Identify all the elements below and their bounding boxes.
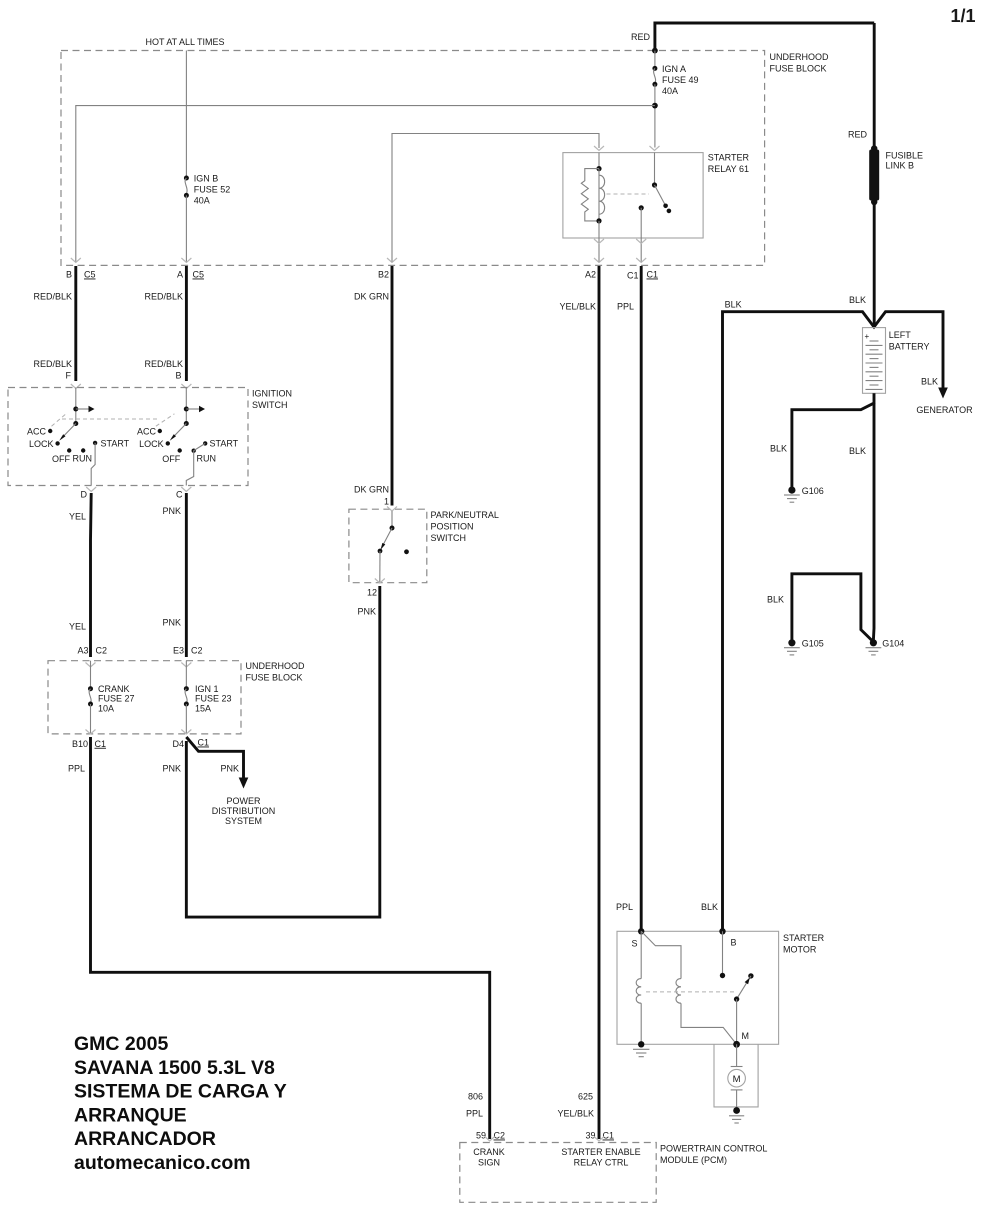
svg-text:ARRANCADOR: ARRANCADOR (74, 1128, 216, 1150)
connector chevron exit B2 (387, 258, 397, 263)
svg-text:BLK: BLK (921, 377, 938, 387)
svg-text:START: START (210, 438, 239, 448)
svg-text:FUSE 52: FUSE 52 (194, 185, 231, 195)
mechanical dashed link ignition (52, 414, 67, 426)
ground G106 (788, 487, 795, 494)
wire START left to D (91, 443, 95, 486)
svg-text:DK GRN: DK GRN (354, 292, 389, 302)
wire S to hold coil (640, 931, 642, 978)
svg-text:D4: D4 (172, 739, 184, 749)
svg-text:806: 806 (468, 1092, 483, 1102)
park/neutral position switch dashed box (349, 509, 427, 583)
svg-text:PNK: PNK (162, 506, 181, 516)
svg-text:B: B (731, 938, 737, 948)
svg-text:G105: G105 (802, 639, 824, 649)
svg-text:STARTER: STARTER (708, 153, 750, 163)
svg-text:SYSTEM: SYSTEM (225, 816, 262, 826)
contact OFF right (178, 448, 182, 452)
svg-text:HOT AT ALL TIMES: HOT AT ALL TIMES (145, 37, 224, 47)
wire to fuse CRANK (90, 661, 92, 689)
svg-text:MOTOR: MOTOR (783, 945, 817, 955)
wire PPL from B10 (91, 737, 490, 1139)
svg-text:ARRANQUE: ARRANQUE (74, 1104, 187, 1126)
motor enclosure (714, 1044, 758, 1107)
wire relay coil feed (598, 153, 600, 169)
switch arm park/neutral (383, 528, 393, 546)
svg-text:M: M (742, 1031, 750, 1041)
svg-text:625: 625 (578, 1092, 593, 1102)
svg-text:B2: B2 (378, 270, 389, 280)
wire to fuse IGN 1 (185, 661, 187, 689)
svg-text:BLK: BLK (849, 446, 866, 456)
node junction at fuse block top (652, 48, 658, 54)
inductor pull-in coil (676, 979, 681, 1004)
svg-text:59: 59 (476, 1131, 486, 1141)
node ignition left top (73, 407, 78, 412)
svg-text:IGN B: IGN B (194, 174, 219, 184)
svg-text:12: 12 (367, 588, 377, 598)
svg-text:F: F (66, 371, 72, 381)
svg-text:IGN 1: IGN 1 (195, 684, 219, 694)
battery LEFT BATTERY (863, 328, 886, 394)
fuse IGN A FUSE 49 40A (652, 66, 657, 71)
svg-text:10A: 10A (98, 704, 114, 714)
svg-text:SWITCH: SWITCH (252, 400, 288, 410)
fusible link B (871, 145, 877, 151)
starter motor box (617, 931, 779, 1044)
svg-text:PNK: PNK (162, 764, 181, 774)
svg-text:IGN A: IGN A (662, 64, 686, 74)
svg-text:G104: G104 (882, 639, 904, 649)
wire ignition feed left (75, 388, 77, 424)
wire RED/BLK column A (185, 266, 188, 381)
inductor hold-in coil (636, 979, 641, 1004)
contact dot relay (667, 209, 672, 214)
svg-text:PPL: PPL (68, 764, 85, 774)
contact START left (93, 441, 97, 445)
svg-text:BLK: BLK (767, 595, 784, 605)
svg-text:LOCK: LOCK (139, 439, 164, 449)
svg-text:UNDERHOOD: UNDERHOOD (770, 52, 830, 62)
svg-text:START: START (101, 438, 130, 448)
svg-text:C2: C2 (494, 1131, 506, 1141)
node ignition left pivot (73, 421, 78, 426)
svg-text:1/1: 1/1 (950, 6, 975, 26)
svg-text:40A: 40A (662, 86, 678, 96)
contact LOCK left (55, 441, 59, 445)
wire PNK from pin 12 (186, 586, 379, 917)
contact RUN right (192, 449, 196, 453)
connector chevron B entry (181, 384, 191, 389)
svg-text:C2: C2 (191, 646, 203, 656)
svg-text:D: D (81, 490, 88, 500)
node ignition right pivot (184, 421, 189, 426)
svg-text:MODULE (PCM): MODULE (PCM) (660, 1155, 727, 1165)
wire BLK G105 jumper (792, 574, 872, 641)
svg-text:M: M (733, 1074, 741, 1085)
svg-text:B10: B10 (72, 739, 88, 749)
svg-text:OFF: OFF (52, 454, 70, 464)
wire PNK column C (185, 493, 188, 657)
svg-text:C1: C1 (95, 739, 107, 749)
svg-text:LINK B: LINK B (886, 161, 915, 171)
wire BLK battery negative to G106 (792, 393, 874, 487)
contact arm top (748, 973, 753, 978)
switch arm starter (737, 976, 751, 999)
wire hold coil to ground (640, 1003, 642, 1044)
svg-text:C1: C1 (603, 1131, 615, 1141)
mechanical dashed link starter (646, 991, 734, 993)
ground starter solenoid (633, 1048, 649, 1050)
svg-text:YEL/BLK: YEL/BLK (559, 302, 596, 312)
wire PNK branch to power distribution (186, 737, 243, 780)
wire IGN B column (185, 51, 187, 179)
svg-text:ACC: ACC (27, 427, 47, 437)
svg-text:FUSIBLE: FUSIBLE (886, 151, 924, 161)
connector chevron exit A (181, 258, 191, 263)
svg-text:RED/BLK: RED/BLK (33, 359, 72, 369)
svg-text:IGNITION: IGNITION (252, 389, 292, 399)
svg-text:1: 1 (384, 497, 389, 507)
svg-text:CRANK: CRANK (473, 1147, 505, 1157)
contact arm bottom (734, 996, 739, 1001)
wire relay switch feed (654, 153, 656, 185)
contact RUN left (81, 448, 85, 452)
wire YEL column D (89, 493, 93, 657)
fuse CRANK FUSE 27 10A (88, 686, 93, 691)
svg-text:SIGN: SIGN (478, 1158, 500, 1168)
svg-text:YEL/BLK: YEL/BLK (557, 1109, 594, 1119)
connector chevron C exit (181, 487, 191, 492)
wire M to motor (736, 1044, 738, 1066)
connector chevron relay switch in (650, 146, 660, 151)
wire PPL relay C1 to starter S (640, 266, 643, 930)
wire motor to ground (736, 1090, 738, 1111)
motor M (731, 1066, 743, 1068)
node relay coil top (596, 166, 601, 171)
wire DK GRN column B2 (391, 266, 394, 506)
svg-text:+: + (865, 332, 870, 341)
svg-text:RELAY 61: RELAY 61 (708, 164, 749, 174)
arrow ignition right (186, 408, 199, 410)
svg-text:RED/BLK: RED/BLK (33, 292, 72, 302)
starter relay box (563, 153, 703, 238)
ground G105 (788, 639, 795, 646)
node B terminal (719, 928, 725, 934)
svg-text:DK GRN: DK GRN (354, 485, 389, 495)
svg-text:FUSE 49: FUSE 49 (662, 75, 699, 85)
svg-text:SISTEMA DE CARGA Y: SISTEMA DE CARGA Y (74, 1081, 287, 1103)
svg-text:B: B (66, 270, 72, 280)
svg-text:RED/BLK: RED/BLK (144, 359, 183, 369)
wire park/neutral out (379, 551, 381, 583)
connector chevron exit A2 (594, 258, 604, 263)
connector chevron D4 exit (181, 730, 191, 735)
arrow power distribution (239, 778, 249, 789)
svg-text:G106: G106 (802, 486, 824, 496)
node relay switch pivot (652, 182, 657, 187)
ignition switch dashed box (8, 388, 248, 486)
wire to fuse IGN A (654, 51, 656, 69)
wire B contact (722, 931, 724, 975)
svg-text:C1: C1 (647, 270, 659, 280)
svg-text:C5: C5 (84, 270, 96, 280)
ground starter motor (733, 1107, 740, 1114)
svg-text:A2: A2 (585, 270, 596, 280)
svg-text:RELAY CTRL: RELAY CTRL (574, 1158, 629, 1168)
svg-text:BLK: BLK (701, 902, 718, 912)
contact START right (203, 441, 207, 445)
svg-text:YEL: YEL (69, 512, 86, 522)
connector chevron relay coil out (594, 239, 604, 244)
svg-text:PNK: PNK (357, 607, 376, 617)
svg-text:E3: E3 (173, 646, 184, 656)
wire IGN B output (185, 195, 187, 262)
svg-text:C1: C1 (198, 738, 210, 748)
connector chevron 39 entry (594, 1137, 604, 1142)
svg-text:A3: A3 (77, 646, 88, 656)
svg-text:PNK: PNK (220, 764, 239, 774)
svg-text:PPL: PPL (466, 1109, 483, 1119)
connector chevron 59 entry (485, 1137, 495, 1142)
svg-text:C1: C1 (627, 271, 639, 281)
svg-text:POSITION: POSITION (431, 522, 474, 532)
contact ACC right (158, 429, 162, 433)
wire fuse IGN A output (654, 84, 656, 147)
contact ACC left (48, 429, 52, 433)
node relay coil bottom (596, 218, 601, 223)
svg-text:PARK/NEUTRAL: PARK/NEUTRAL (431, 510, 499, 520)
svg-text:UNDERHOOD: UNDERHOOD (246, 661, 306, 671)
svg-text:STARTER ENABLE: STARTER ENABLE (561, 1147, 640, 1157)
wire bus B2 to relay (392, 134, 599, 263)
svg-text:automecanico.com: automecanico.com (74, 1152, 251, 1174)
mechanical dashed link relay (607, 193, 650, 195)
connector chevron F entry (71, 384, 81, 389)
contact LOCK right (166, 441, 170, 445)
node junction IGN A out (652, 103, 658, 109)
arrow generator (938, 388, 948, 399)
svg-text:STARTER: STARTER (783, 933, 825, 943)
svg-text:LEFT: LEFT (889, 330, 912, 340)
switch arm relay (655, 185, 666, 206)
svg-text:FUSE BLOCK: FUSE BLOCK (770, 64, 827, 74)
node S terminal (638, 928, 644, 934)
connector chevron E3 entry (181, 663, 191, 668)
svg-text:FUSE 23: FUSE 23 (195, 694, 232, 704)
wire START right to C (186, 443, 205, 485)
fuse IGN B FUSE 52 40A (184, 176, 189, 181)
svg-text:RED: RED (848, 130, 868, 140)
wire RED main feed to fusible link (873, 23, 876, 149)
svg-text:C5: C5 (193, 270, 205, 280)
wire contact to M (736, 999, 738, 1044)
svg-text:RED: RED (631, 32, 651, 42)
svg-text:RED/BLK: RED/BLK (144, 292, 183, 302)
wire BLK battery to G104 (872, 403, 875, 640)
resistor relay (581, 169, 599, 221)
node ignition right top (184, 407, 189, 412)
wire fuse CRANK out (90, 704, 92, 734)
svg-text:OFF: OFF (162, 454, 180, 464)
svg-text:CRANK: CRANK (98, 684, 130, 694)
contact OFF left (67, 448, 71, 452)
svg-text:A: A (177, 270, 183, 280)
svg-text:39: 39 (585, 1131, 595, 1141)
node M junction (733, 1041, 740, 1048)
fuse IGN 1 FUSE 23 15A (184, 686, 189, 691)
node park/neutral pivot (390, 526, 395, 531)
svg-text:BATTERY: BATTERY (889, 342, 930, 352)
svg-text:SAVANA 1500 5.3L V8: SAVANA 1500 5.3L V8 (74, 1057, 275, 1079)
wire S to pull-in coil (641, 931, 681, 978)
wire pull coil to M (681, 1003, 737, 1044)
svg-text:RUN: RUN (197, 454, 217, 464)
svg-text:PPL: PPL (617, 302, 634, 312)
contact park/neutral left (378, 549, 383, 554)
connector chevron relay coil in (594, 146, 604, 151)
svg-text:POWERTRAIN CONTROL: POWERTRAIN CONTROL (660, 1144, 767, 1154)
svg-text:C2: C2 (96, 646, 108, 656)
connector chevron D exit (86, 487, 96, 492)
svg-text:S: S (631, 939, 637, 949)
connector chevron exit B (71, 258, 81, 263)
arrow ignition left (76, 408, 89, 410)
svg-text:YEL: YEL (69, 622, 86, 632)
wire bus to column B (76, 106, 655, 262)
contact park/neutral right (404, 549, 409, 554)
svg-text:15A: 15A (195, 704, 211, 714)
wire relay coil to A2 (598, 221, 600, 262)
wire ignition feed right (185, 388, 187, 424)
wire RED top feed (655, 23, 874, 51)
svg-text:GMC 2005: GMC 2005 (74, 1033, 168, 1055)
svg-text:BLK: BLK (849, 295, 866, 305)
wire park/neutral feed (391, 511, 393, 528)
wire BLK fusible link to battery (873, 202, 876, 327)
ground G104 (870, 639, 877, 646)
wire relay output to C1 (640, 208, 642, 262)
node ground junction S coil (638, 1041, 644, 1047)
switch arm ignition left (62, 424, 76, 438)
wire BLK bus with battery V left branch (723, 312, 944, 931)
svg-text:B: B (175, 371, 181, 381)
wire fuse IGN 1 out (185, 704, 187, 734)
inductor relay coil (598, 169, 600, 221)
svg-text:BLK: BLK (725, 300, 742, 310)
connector chevron B10 exit (86, 730, 96, 735)
svg-text:FUSE 27: FUSE 27 (98, 694, 135, 704)
svg-text:PPL: PPL (616, 902, 633, 912)
svg-text:ACC: ACC (137, 427, 157, 437)
connector chevron A3 entry (86, 663, 96, 668)
svg-text:DISTRIBUTION: DISTRIBUTION (212, 806, 276, 816)
svg-text:40A: 40A (194, 196, 210, 206)
node relay output (639, 205, 644, 210)
svg-text:FUSE BLOCK: FUSE BLOCK (246, 673, 303, 683)
connector chevron exit C1 (636, 258, 646, 263)
powertrain control module dashed box (460, 1143, 656, 1203)
underhood fuse block (lower) dashed box (48, 661, 241, 734)
switch arm ignition right (173, 424, 187, 438)
connector chevron relay switch out (636, 239, 646, 244)
underhood fuse block (top) dashed box (61, 51, 765, 266)
svg-text:SWITCH: SWITCH (431, 533, 467, 543)
svg-text:POWER: POWER (226, 796, 261, 806)
svg-text:RUN: RUN (73, 454, 93, 464)
svg-text:LOCK: LOCK (29, 439, 54, 449)
svg-text:C: C (176, 490, 183, 500)
wire RED/BLK column B (74, 266, 77, 381)
connector chevron pin 12 exit (375, 579, 385, 584)
svg-text:BLK: BLK (770, 444, 787, 454)
wire YEL/BLK A2 to PCM (598, 266, 601, 1139)
svg-text:GENERATOR: GENERATOR (916, 405, 973, 415)
connector chevron pin 1 entry (387, 507, 397, 512)
svg-text:PNK: PNK (162, 618, 181, 628)
contact B (720, 973, 725, 978)
